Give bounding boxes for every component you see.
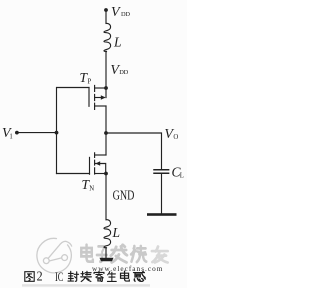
node V1 junction [55,131,59,135]
wire inductor to ground [105,248,107,258]
watermark logo circle [37,238,72,272]
transistor TN gate bar [89,157,91,174]
wire input net vertical [56,88,58,174]
wire output node down to TN [105,133,107,155]
label VO [164,127,178,142]
svg-text:2: 2 [37,270,43,285]
transistor TN source stub [95,173,106,175]
wire [105,10,107,24]
svg-text:O: O [173,134,178,141]
node VDD terminal [104,8,108,12]
caption 生 [107,272,116,282]
caption 感 [134,271,146,281]
svg-text:IC: IC [55,269,63,284]
label TP [80,70,92,86]
svg-text:P: P [88,79,92,86]
label CL [172,164,184,179]
svg-text:DD: DD [121,11,130,18]
wm 友 [152,247,168,263]
svg-text:GND: GND [113,188,135,203]
wire cap to ground [161,173,163,213]
inductor L (top) [104,23,111,51]
node V1 terminal [15,131,19,135]
transistor TN body stub with arrow [95,164,105,174]
transistor TP channel segments [94,85,96,109]
node TN source junction [104,172,108,176]
label VDD (mid) [110,63,128,78]
transistor TP body stub with arrow [95,97,105,99]
wm 电 [81,245,93,262]
node VDD junction [104,86,108,90]
wire [105,51,107,88]
caption 装 [81,271,92,281]
ground (bottom, under L) [100,258,114,261]
transistor TP drain stub [95,105,106,107]
transistor TP source stub [95,87,106,89]
watermark text 电子发烧友 [81,245,167,263]
wm 子 [97,246,107,261]
transistor TP gate lead wire [57,87,89,89]
caption 封 [68,271,79,281]
wire output to right [106,133,162,169]
svg-text:N: N [89,186,94,193]
node output junction [104,131,108,135]
transistor TP body-source link [105,88,107,98]
transistor TN channel segments [94,153,96,174]
wire drain to output [105,106,107,133]
wm 发 [111,245,127,263]
caption 寄 [94,271,104,281]
svg-text:www.elecfans.com: www.elecfans.com [92,265,163,273]
inductor L (bottom) [104,220,111,248]
transistor TN gate lead wire [57,173,90,175]
svg-text:V: V [111,5,121,20]
label VDD (top) [111,5,130,20]
svg-text:L: L [113,35,122,50]
ground (right, under CL) [147,213,177,216]
wire TN source to inductor [105,174,107,220]
watermark bottom faint band [22,284,150,286]
wire V1 lead [17,132,57,134]
svg-text:L: L [112,225,121,240]
wm 烧 [131,246,146,262]
transistor TN drain stub [95,154,106,156]
svg-text:1: 1 [9,134,12,141]
label V1 [2,126,13,141]
transistor TP gate bar [88,88,90,107]
caption 电 [121,271,130,281]
label TN [82,177,95,192]
svg-text:DD: DD [119,69,128,76]
caption 图 [25,272,34,282]
svg-text:L: L [180,173,184,180]
caption 图2 IC 封装寄生电感 [25,271,146,281]
capacitor CL [154,169,169,171]
